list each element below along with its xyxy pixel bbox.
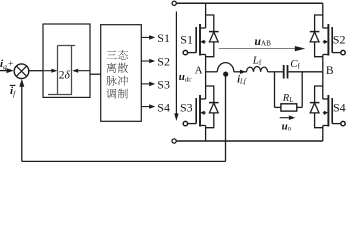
svg-text:2δ: 2δ: [59, 69, 71, 81]
u_o arrow: [280, 117, 290, 119]
arrowhead: S1 output: [149, 35, 155, 40]
wire: gate signal S4: [141, 106, 150, 108]
svg-text:S4: S4: [157, 100, 170, 114]
label CJK 三: [106, 51, 116, 59]
freewheel diode of S3: [206, 86, 214, 103]
svg-text:S4: S4: [333, 101, 346, 115]
hysteresis comparator block: [43, 24, 90, 97]
wire: capacitor to node B: [288, 71, 323, 73]
wire: gate signal S3: [141, 83, 150, 85]
wire: feedback tap down: [225, 73, 227, 161]
transistor S4 source/body leads: [323, 112, 326, 114]
arrowhead: input into summing junction: [7, 68, 14, 73]
transistor S1 body: [205, 3, 207, 28]
load branch left drop: [274, 72, 276, 108]
label CJK 调: [106, 89, 116, 99]
svg-text:S1: S1: [157, 31, 170, 45]
freewheel diode of S4: [315, 86, 323, 103]
transistor S3 body: [205, 72, 207, 99]
wire: node A to filter: [206, 71, 218, 73]
transistor S2 source/body leads: [323, 41, 326, 43]
arrowhead: S4 output: [149, 104, 155, 109]
label CJK 态: [118, 50, 128, 60]
arrowhead: S2 output: [149, 59, 155, 64]
label CJK 脉: [106, 76, 116, 86]
DC terminal top-left: [172, 1, 176, 5]
label CJK 制: [118, 89, 128, 99]
capacitor Cf plates: [283, 65, 285, 79]
wire: negative DC rail: [176, 140, 322, 142]
summing junction X1: [14, 64, 29, 79]
arrowhead: 2delta left: [51, 69, 57, 73]
svg-text:S3: S3: [180, 101, 193, 115]
wire: error to hysteresis: [29, 70, 43, 72]
wire: positive DC rail: [176, 2, 322, 4]
2delta dimension arrows: [44, 70, 52, 72]
gate terminal of S2: [341, 50, 345, 54]
DC terminal bottom-left: [172, 139, 176, 143]
svg-text:A: A: [195, 64, 203, 76]
wire: feedback bottom run: [22, 160, 226, 162]
arrowhead: i_Lf: [240, 70, 246, 74]
svg-text:S2: S2: [333, 33, 346, 47]
gate terminal of S4: [341, 121, 345, 125]
wire: gate signal S1: [141, 36, 150, 38]
freewheel diode of S2: [315, 15, 323, 32]
wire: feedback up to summing junction: [21, 86, 23, 162]
freewheel diode of S1: [206, 15, 214, 32]
svg-text:S3: S3: [157, 78, 170, 92]
gate terminal of S3: [183, 121, 187, 125]
wire: gate signal S2: [141, 60, 150, 62]
transistor S2 body: [322, 3, 324, 28]
u_dc voltage arrow line: [175, 12, 177, 114]
transistor S3 source/body leads: [203, 112, 206, 114]
svg-text:S2: S2: [157, 55, 170, 69]
arrowhead: u_dc voltage arrow: [174, 113, 178, 121]
wire: hysteresis to modulator: [90, 73, 101, 75]
wire: sensor to inductor: [234, 71, 247, 73]
label CJK 散: [118, 63, 128, 73]
wire: to load RL: [275, 106, 281, 108]
current sensor loop at node A: [217, 63, 234, 72]
svg-text:S1: S1: [180, 33, 193, 47]
node A junction dot: [223, 72, 228, 77]
wire: reference input i_g: [0, 70, 9, 72]
arrowhead: feedback into summing junction: [19, 79, 24, 87]
transistor S4 body: [322, 72, 324, 99]
gate terminal of S1: [183, 50, 187, 54]
arrowhead: S3 output: [149, 82, 155, 87]
label CJK 冲: [118, 76, 128, 86]
modulator block (three-state discrete pulse modulation): [101, 25, 142, 122]
svg-text:+: +: [8, 60, 13, 70]
u_AB arrow: [219, 47, 295, 49]
svg-text:B: B: [326, 65, 334, 77]
arrowhead: 2delta right: [72, 69, 78, 73]
transistor S1 source/body leads: [203, 41, 206, 43]
wire: inductor to capacitor: [268, 71, 283, 73]
label CJK 离: [107, 63, 117, 73]
resistor RL box: [281, 104, 297, 111]
inductor Lf: [247, 66, 268, 71]
wire: RL to node B drop: [297, 106, 302, 108]
hysteresis relay symbol: [48, 46, 75, 95]
